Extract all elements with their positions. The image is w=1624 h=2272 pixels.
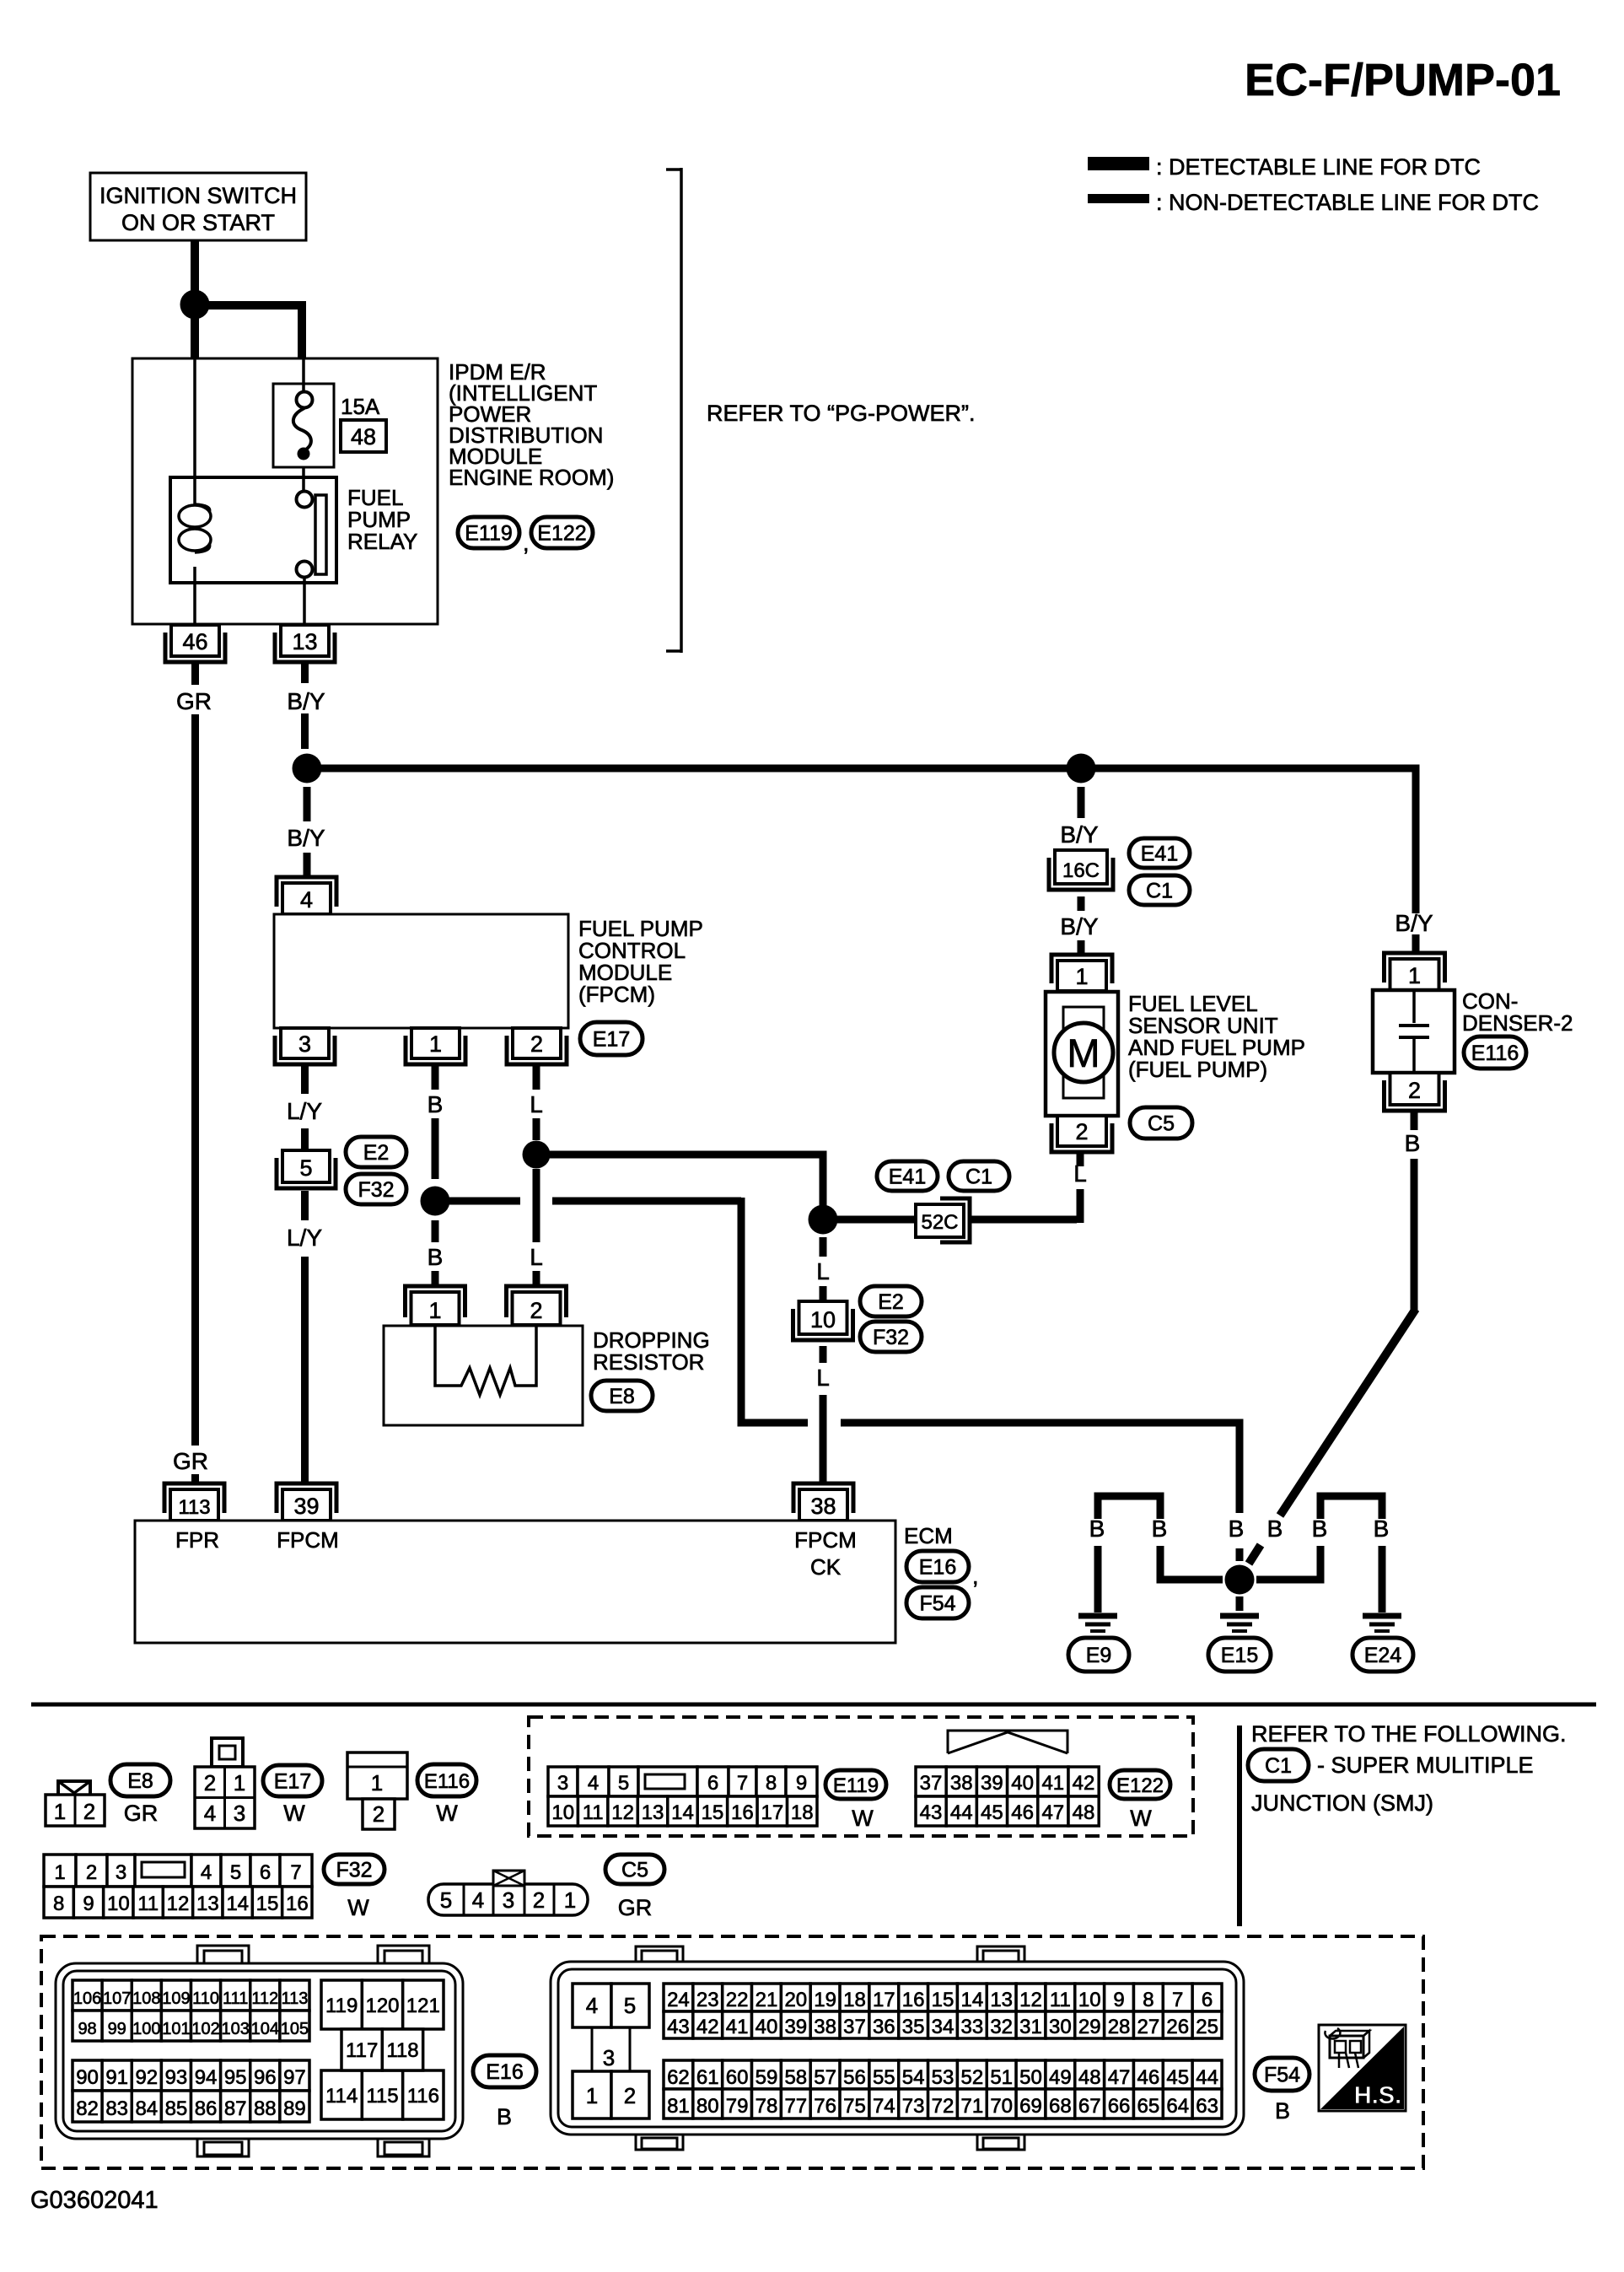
ground symbol E9 [1078,1613,1117,1619]
svg-text:92: 92 [135,2066,158,2089]
svg-text:B: B [1374,1516,1390,1542]
svg-text:46: 46 [182,629,207,654]
ECM pin 39 connector [282,1489,331,1521]
svg-text:E17: E17 [274,1770,311,1794]
svg-text:2: 2 [530,1031,543,1057]
svg-text:9: 9 [796,1772,807,1795]
svg-text:27: 27 [1137,2016,1160,2038]
svg-text:33: 33 [960,2016,983,2038]
svg-text:5: 5 [440,1887,452,1913]
svg-text:68: 68 [1049,2095,1072,2118]
svg-text:57: 57 [814,2066,836,2089]
svg-text:E24: E24 [1364,1644,1402,1667]
refer-to bracket [680,168,683,653]
svg-text:29: 29 [1078,2016,1101,2038]
svg-text:10: 10 [107,1892,130,1915]
svg-text:119: 119 [325,1995,358,2017]
connector E119 oval [458,517,519,548]
svg-text:53: 53 [932,2066,955,2089]
svg-text:C1: C1 [1146,880,1173,903]
svg-text:13: 13 [990,1989,1013,2011]
svg-text:69: 69 [1019,2095,1042,2118]
condenser-2 box [1373,990,1455,1073]
svg-text:E17: E17 [593,1028,630,1052]
svg-text:95: 95 [224,2066,247,2089]
wire L/Y conn5 to ECM FPCM [301,1191,309,1220]
svg-text:2: 2 [204,1770,216,1796]
inline connector 5 [282,1150,330,1182]
svg-text:1: 1 [564,1887,576,1913]
svg-text:DENSER-2: DENSER-2 [1462,1010,1573,1036]
svg-text:G03602041: G03602041 [30,2187,159,2214]
svg-text:17: 17 [873,1989,895,2011]
svg-text:4: 4 [588,1772,599,1795]
wire E15 dash [1236,1548,1244,1561]
svg-text:B: B [497,2104,512,2129]
svg-text:15: 15 [702,1801,724,1824]
svg-text:10: 10 [1078,1989,1101,2011]
IPDM E/R box [132,358,438,624]
svg-text:112: 112 [251,1989,278,2008]
svg-text:16: 16 [731,1801,754,1824]
svg-text:1: 1 [54,1799,66,1824]
svg-text:RELAY: RELAY [347,529,417,554]
svg-text:22: 22 [726,1989,749,2011]
wire L J5 to resistor pin2 [533,1169,540,1242]
svg-text:105: 105 [281,2020,309,2038]
connector E119 oval label [825,1770,886,1799]
svg-text:B: B [1229,1516,1245,1542]
svg-text:52: 52 [960,2066,983,2089]
svg-text:,: , [523,530,530,556]
svg-text:(FUEL PUMP): (FUEL PUMP) [1128,1057,1267,1082]
svg-text:56: 56 [843,2066,866,2089]
svg-text:113: 113 [281,1989,308,2008]
svg-text:7: 7 [290,1861,301,1884]
svg-text:9: 9 [1113,1989,1124,2011]
wire fuse to relay contact [302,467,305,492]
svg-text:B: B [1089,1516,1105,1542]
svg-text:3: 3 [234,1801,245,1826]
svg-text:80: 80 [696,2095,719,2118]
node J6 junction dot [809,1205,838,1235]
svg-text:116: 116 [407,2085,439,2108]
svg-text:4: 4 [204,1801,216,1826]
connector view E17 [212,1738,243,1767]
svg-text:101: 101 [162,2020,190,2038]
wire ignition to node J1 [191,240,199,292]
svg-text:36: 36 [873,2016,895,2038]
svg-text:M: M [1067,1031,1100,1075]
svg-text:E9: E9 [1086,1644,1112,1667]
diagonal dash to J7 [1249,1545,1261,1564]
svg-text:12: 12 [611,1801,634,1824]
svg-text:78: 78 [756,2095,778,2118]
svg-text:C5: C5 [621,1859,648,1882]
fuse number 48 box [341,420,386,452]
svg-text:6: 6 [1202,1989,1213,2011]
connector E8 oval [591,1381,653,1411]
svg-text:1: 1 [429,1031,442,1057]
svg-text:F32: F32 [358,1178,394,1202]
svg-text:35: 35 [902,2016,925,2038]
svg-text:60: 60 [726,2066,749,2089]
inline connector 10 [799,1301,847,1334]
svg-text:102: 102 [191,2020,219,2038]
connector E41 oval mid [877,1161,938,1191]
svg-text:W: W [436,1801,458,1826]
E16 pin grid lower-left [73,2060,102,2091]
svg-text:21: 21 [756,1989,778,2011]
svg-text:70: 70 [990,2095,1013,2118]
svg-text:B/Y: B/Y [287,825,325,851]
fuel pump relay box [170,477,336,583]
connector E116 oval label [417,1764,476,1796]
svg-text:84: 84 [135,2097,158,2120]
wire L/Y FPCM pin3 to conn5 [301,1064,309,1094]
E16 pin grid right [321,1980,362,2029]
svg-text:B/Y: B/Y [1060,913,1098,939]
svg-text:51: 51 [990,2066,1013,2089]
svg-text:16C: 16C [1062,859,1100,882]
connector E116 oval [1464,1036,1526,1069]
ECM box [135,1521,895,1643]
condenser pin 1 connector [1390,959,1439,990]
svg-text:43: 43 [920,1801,943,1824]
svg-text:97: 97 [283,2066,306,2089]
svg-text:11: 11 [137,1892,159,1915]
svg-text:F32: F32 [873,1326,909,1349]
svg-text:37: 37 [843,2016,866,2038]
FPCM pin 4 connector [282,883,331,914]
node J1 junction dot [180,290,210,320]
svg-text:2: 2 [83,1799,95,1824]
svg-text:46: 46 [1137,2066,1160,2089]
dropping resistor pin 2 connector [513,1292,561,1325]
svg-text:61: 61 [696,2066,719,2089]
legend detectable line sample [1088,157,1149,170]
svg-text:63: 63 [1196,2095,1218,2118]
svg-text:GR: GR [176,688,212,714]
wire L conn10 to ECM FPCM CK [820,1346,827,1363]
svg-text:GR: GR [124,1801,159,1826]
svg-text:2: 2 [533,1887,545,1913]
svg-text:5: 5 [299,1155,312,1181]
svg-text:13: 13 [642,1801,664,1824]
svg-text:: DETECTABLE LINE FOR DTC: : DETECTABLE LINE FOR DTC [1156,154,1481,180]
svg-text:E41: E41 [889,1166,926,1189]
svg-text:4: 4 [472,1887,484,1913]
wire 52C line J6 to condenser leg [837,1216,916,1224]
connector E122 oval label [1110,1770,1170,1799]
connector view C5 [428,1884,588,1915]
svg-text:1: 1 [586,2083,598,2108]
svg-text:12: 12 [167,1892,190,1915]
svg-text:47: 47 [1041,1801,1064,1824]
svg-text:38: 38 [950,1772,973,1795]
svg-text:GR: GR [173,1448,208,1474]
svg-text:E8: E8 [609,1385,635,1408]
svg-text:L: L [816,1365,830,1391]
svg-text:REFER TO THE FOLLOWING.: REFER TO THE FOLLOWING. [1251,1721,1567,1747]
connector E24 oval [1352,1638,1413,1672]
connector view E119 [548,1767,578,1796]
svg-text:67: 67 [1078,2095,1101,2118]
svg-text:44: 44 [950,1801,973,1824]
svg-text:91: 91 [105,2066,128,2089]
svg-text:H.S.: H.S. [1354,2082,1401,2109]
svg-text:1: 1 [1075,964,1088,989]
svg-text:F54: F54 [1264,2064,1300,2087]
svg-text:B: B [1405,1130,1421,1156]
fuse element [297,392,313,408]
connector C1 oval mid [949,1161,1009,1191]
wire up to pump pin2 [1077,1189,1084,1223]
pin 46 connector [171,625,219,656]
svg-text:5: 5 [624,1993,636,2018]
svg-text:64: 64 [1166,2095,1189,2118]
svg-text:FPCM: FPCM [277,1527,339,1553]
svg-text:1: 1 [234,1770,245,1796]
svg-text:B/Y: B/Y [287,688,325,714]
connector C5 oval label [605,1855,664,1884]
connector E17 oval [580,1022,643,1055]
svg-text:14: 14 [226,1892,249,1915]
svg-text:38: 38 [814,2016,836,2038]
svg-text:- SUPER MULITIPLE: - SUPER MULITIPLE [1317,1752,1534,1778]
ground bridge E9-E15 [1098,1496,1160,1519]
relay contact bar [315,495,326,574]
svg-text:52C: 52C [921,1211,958,1234]
node J7 ground junction dot [1225,1565,1255,1595]
svg-text:45: 45 [981,1801,1003,1824]
svg-text:10: 10 [551,1801,574,1824]
svg-text:IGNITION SWITCH: IGNITION SWITCH [99,183,297,208]
svg-text:77: 77 [784,2095,807,2118]
svg-text:66: 66 [1108,2095,1131,2118]
svg-text:14: 14 [960,1989,983,2011]
inline connector 16C [1055,850,1107,884]
svg-text:7: 7 [737,1772,748,1795]
svg-text:39: 39 [293,1494,319,1519]
wire GR pin46 to ECM FPR [191,661,199,685]
svg-text:118: 118 [386,2039,418,2062]
wire B/Y pin13 to node J2 dashed [301,661,309,683]
fuse 15A box [273,384,334,467]
wire B condenser down [1411,1112,1418,1130]
svg-text:34: 34 [932,2016,955,2038]
svg-text:20: 20 [784,1989,807,2011]
svg-text:23: 23 [696,1989,719,2011]
svg-text:2: 2 [86,1861,97,1884]
connector F32 oval label [324,1855,384,1884]
fuel pump motor inner rect [1063,1007,1104,1098]
E16 pin grid upper-left [73,1980,102,2011]
svg-text:37: 37 [920,1772,943,1795]
svg-text:4: 4 [586,1993,598,2018]
svg-text:111: 111 [223,1989,248,2008]
svg-text:39: 39 [784,2016,807,2038]
svg-text:49: 49 [1049,2066,1072,2089]
connector E16 oval [906,1551,969,1582]
connector view E116 [347,1752,407,1799]
ignition switch box [90,173,306,240]
connector E41 oval upper [1129,838,1190,868]
svg-text:85: 85 [165,2097,188,2120]
FPCM pin 1 connector [411,1028,460,1058]
connector view F32 [44,1855,76,1887]
svg-text:B: B [428,1244,444,1270]
svg-text:73: 73 [902,2095,925,2118]
relay coil [179,505,211,527]
svg-text:75: 75 [843,2095,866,2118]
svg-text:,: , [972,1564,979,1589]
fuel pump motor circle [1054,1023,1113,1082]
svg-text:2: 2 [1075,1119,1088,1144]
connector view E122 [948,1731,1067,1753]
wire B FPCM pin1 to node J4 dashed [432,1064,439,1090]
svg-text:19: 19 [814,1989,836,2011]
F54 pilot pins 4 5 3 1 2 [573,1984,611,2027]
connector F32 oval lower [860,1322,922,1352]
connector F54 oval side [906,1587,969,1618]
svg-text:103: 103 [222,2020,250,2038]
svg-text:41: 41 [1041,1772,1064,1795]
F54 pin grid lower [664,2060,693,2089]
branch wire J4 to ground bus [449,1198,520,1205]
svg-text:13: 13 [292,629,317,654]
svg-text:71: 71 [960,2095,983,2118]
svg-text:ECM: ECM [904,1523,953,1548]
svg-text:W: W [347,1895,369,1920]
node J2 junction dot [293,754,322,783]
wire B/Y 16C to pump pin1 dashed [1078,896,1085,911]
svg-text:L/Y: L/Y [287,1225,322,1251]
svg-text:18: 18 [843,1989,866,2011]
wire L J6 to conn10 dashed [820,1237,827,1257]
connector F54 oval label [1255,2058,1309,2091]
connector E16 oval label [473,2055,536,2087]
svg-text:48: 48 [1073,1801,1095,1824]
svg-text:16: 16 [286,1892,309,1915]
svg-text:42: 42 [696,2016,719,2038]
resistor element [435,1326,536,1395]
svg-text:RESISTOR: RESISTOR [593,1349,704,1375]
ECM pin 113 connector [170,1489,218,1521]
svg-text:ON OR START: ON OR START [121,210,275,235]
svg-text:2: 2 [373,1801,384,1827]
legend non-detectable line sample [1088,194,1149,203]
wire J1 to fuse branch [208,305,302,358]
branch wire J5 to node J6 [549,1155,823,1208]
svg-text:(FPCM): (FPCM) [578,982,655,1007]
svg-text:40: 40 [756,2016,778,2038]
svg-text:L: L [816,1258,830,1284]
svg-text:6: 6 [260,1861,271,1884]
wire B/Y J2 down to FPCM pin4 dashed [304,787,311,821]
svg-text:E41: E41 [1141,843,1178,866]
svg-text:48: 48 [1078,2066,1101,2089]
node J3 junction dot [1067,754,1096,783]
svg-text:43: 43 [667,2016,690,2038]
svg-text:79: 79 [726,2095,749,2118]
svg-text:5: 5 [230,1861,241,1884]
svg-text:30: 30 [1049,2016,1072,2038]
wire E9 ground [1094,1546,1102,1612]
wire J7 to E15 ground dashed [1236,1596,1244,1611]
svg-text:15A: 15A [341,394,380,419]
ground symbol E15 [1220,1613,1259,1619]
wire relay to pin 13 [303,577,306,625]
svg-text:E122: E122 [1116,1774,1164,1797]
svg-text:E8: E8 [127,1769,153,1793]
ground bus horizontal to E15 corner [841,1423,1240,1513]
svg-text:2: 2 [530,1298,542,1323]
svg-text:B: B [1152,1516,1168,1542]
svg-text:58: 58 [784,2066,807,2089]
svg-text:E16: E16 [919,1556,956,1580]
wire B/Y J3 to 16C dashed [1078,787,1085,818]
svg-text:ENGINE ROOM): ENGINE ROOM) [449,465,614,490]
connector E8 oval label [110,1764,170,1796]
svg-text:11: 11 [1050,1989,1071,2011]
svg-text:3: 3 [298,1031,311,1057]
svg-text:GR: GR [618,1895,653,1920]
svg-text:4: 4 [201,1861,212,1884]
svg-text:25: 25 [1196,2016,1218,2038]
svg-text:115: 115 [366,2085,398,2108]
connector view F54 shell [551,1962,1244,2135]
svg-text:65: 65 [1137,2095,1160,2118]
svg-text:5: 5 [618,1772,629,1795]
svg-text:120: 120 [365,1995,399,2017]
svg-text:83: 83 [105,2097,128,2120]
svg-text:C1: C1 [1265,1754,1292,1778]
diagonal ground wire [1280,1309,1416,1516]
svg-text:82: 82 [76,2097,99,2120]
svg-text:46: 46 [1011,1801,1034,1824]
svg-text:E16: E16 [486,2060,523,2084]
svg-text:1: 1 [371,1770,383,1796]
svg-text:40: 40 [1011,1772,1034,1795]
svg-text:B/Y: B/Y [1395,910,1433,936]
ground symbol E24 [1363,1613,1401,1619]
svg-text:88: 88 [254,2097,277,2120]
svg-text:32: 32 [990,2016,1013,2038]
svg-text:98: 98 [78,2020,96,2038]
svg-text:1: 1 [54,1861,65,1884]
svg-text:104: 104 [251,2020,279,2038]
wire L FPCM pin2 to node J5 dashed [533,1064,540,1090]
svg-text:E116: E116 [424,1770,470,1793]
wire B J4 to resistor pin1 dashed [432,1220,439,1242]
svg-text:E116: E116 [1471,1042,1519,1065]
svg-text:7: 7 [1172,1989,1183,2011]
svg-text:8: 8 [53,1892,64,1915]
svg-text:3: 3 [503,1887,514,1913]
svg-text:4: 4 [300,887,313,913]
svg-text:86: 86 [195,2097,218,2120]
svg-text:W: W [283,1801,305,1826]
svg-text:JUNCTION (SMJ): JUNCTION (SMJ) [1251,1790,1433,1816]
connector F32 oval upper [346,1174,406,1204]
svg-text:44: 44 [1196,2066,1218,2089]
svg-text:28: 28 [1108,2016,1131,2038]
wire inside IPDM to relay coil [193,358,196,504]
svg-text:94: 94 [195,2066,218,2089]
F54 pin grid upper [664,1984,693,2011]
svg-text:14: 14 [671,1801,694,1824]
